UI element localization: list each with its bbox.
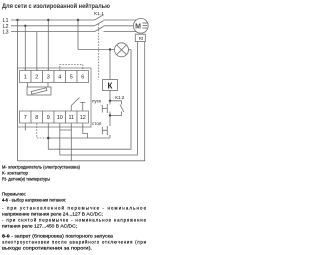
svg-text:L3: L3 [3,30,9,36]
svg-text:12: 12 [80,115,86,121]
svg-text:9: 9 [47,115,50,121]
svg-text:11: 11 [68,115,74,121]
svg-text:выходе сопротивления за пороги: выходе сопротивления за пороги). [2,246,92,251]
svg-text:К1.2: К1.2 [115,95,125,100]
svg-text:Для сети с изолированной нейтр: Для сети с изолированной нейтралью [2,3,110,10]
svg-text:К: К [108,81,113,90]
svg-text:стоп: стоп [92,121,102,126]
svg-text:Rt- датчик(и) температуры: Rt- датчик(и) температуры [2,176,50,181]
svg-text:M: M [135,24,141,31]
svg-text:М- электродвигатель (электроус: М- электродвигатель (электроустановка) [2,164,81,169]
svg-text:питания реле 127...450 В AC/DC: питания реле 127...450 В AC/DC; [2,223,77,228]
svg-text:4-6 - выбор напряжения питания: 4-6 - выбор напряжения питания: [2,198,66,203]
svg-text:пуск: пуск [92,99,102,104]
svg-text:2: 2 [35,75,38,81]
svg-text:8-9 - запрет (блокировка) повт: 8-9 - запрет (блокировка) повторного зап… [2,234,114,239]
svg-text:7: 7 [24,115,27,121]
svg-text:3: 3 [47,75,50,81]
svg-text:электроустановки после аварийн: электроустановки после аварийного отключ… [2,240,147,245]
svg-text:1: 1 [24,75,27,81]
svg-text:- при снятой перемычке - номин: - при снятой перемычке - номинальное нап… [2,217,147,222]
svg-text:K1,1: K1,1 [94,11,104,17]
svg-text:К- контактор: К- контактор [2,170,29,175]
svg-text:- при установленной перемычке: - при установленной перемычке - номиналь… [2,205,147,210]
svg-text:напряжение питания реле 24...1: напряжение питания реле 24...127 В AC/DC… [2,211,103,216]
svg-text:8: 8 [35,115,38,121]
svg-text:5: 5 [70,75,73,81]
svg-text:4: 4 [58,75,61,81]
svg-text:6: 6 [81,75,84,81]
svg-text:10: 10 [57,115,63,121]
svg-text:Перемычки:: Перемычки: [2,191,26,196]
